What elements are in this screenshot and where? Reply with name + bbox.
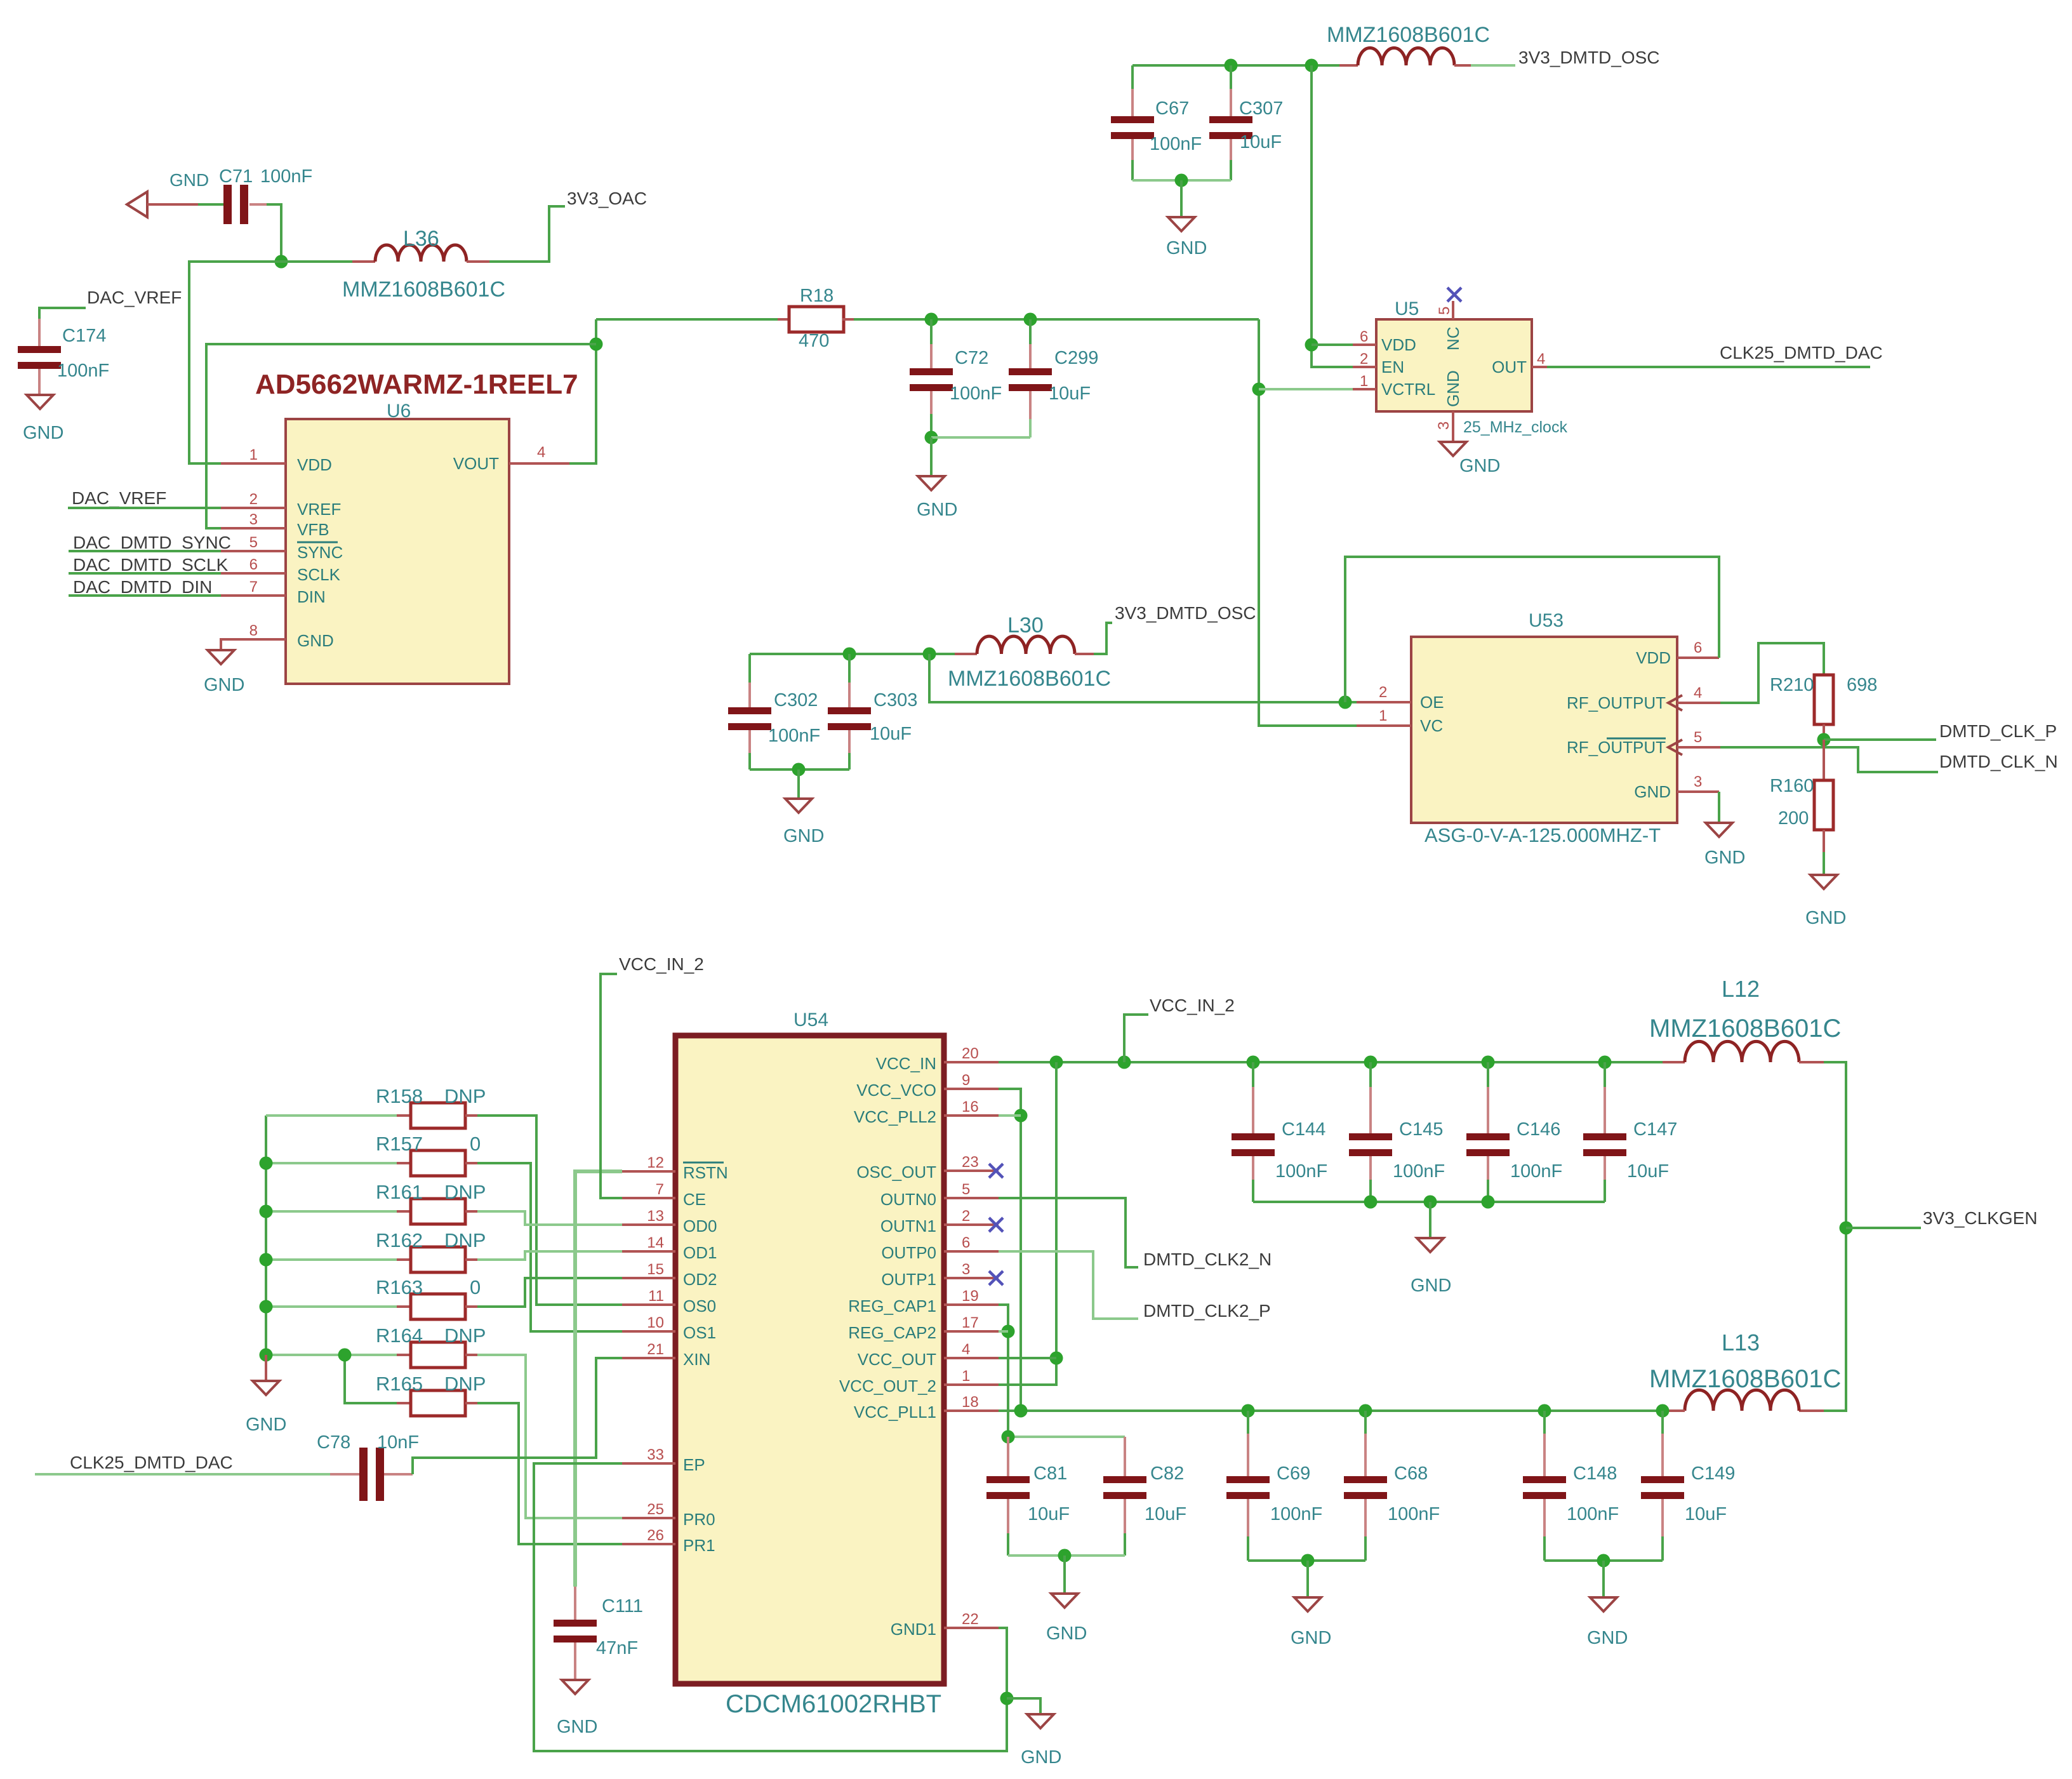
resistor R162 DNP: [266, 1258, 397, 1261]
U54 pin 17 REG_CAP2: [944, 1330, 999, 1333]
svg-text:REG_CAP1: REG_CAP1: [848, 1296, 936, 1316]
wire to 3V3_CLKGEN label: [1846, 1227, 1921, 1229]
svg-text:R162: R162: [376, 1229, 423, 1251]
svg-text:GND: GND: [297, 631, 334, 650]
svg-text:C303: C303: [873, 690, 917, 710]
svg-text:GND: GND: [1291, 1628, 1331, 1648]
wire to ground: [1429, 1202, 1431, 1238]
inductor L36 MMZ1608B601C: [352, 260, 375, 263]
svg-text:VOUT: VOUT: [453, 454, 499, 473]
svg-text:C82: C82: [1150, 1463, 1184, 1484]
svg-text:10uF: 10uF: [1240, 132, 1282, 152]
svg-text:GND: GND: [1046, 1623, 1087, 1644]
svg-text:2: 2: [962, 1208, 970, 1225]
U53 pin 2 OE: [1357, 701, 1411, 703]
svg-text:L12: L12: [1722, 976, 1760, 1002]
svg-text:4: 4: [1694, 684, 1702, 702]
svg-text:100nF: 100nF: [1270, 1504, 1322, 1524]
svg-text:4: 4: [1537, 350, 1545, 368]
junction: [260, 1349, 273, 1362]
svg-text:L36: L36: [403, 227, 439, 251]
U54 pin 2 OUTN1: [944, 1223, 999, 1226]
wire L36 to 3V3_OAC: [489, 206, 565, 262]
svg-text:DMTD_CLK2_P: DMTD_CLK2_P: [1143, 1301, 1271, 1321]
ground: [1168, 217, 1195, 231]
svg-text:C111: C111: [602, 1596, 643, 1616]
U54 pin 13 OD0: [622, 1223, 675, 1226]
junction: [1538, 1404, 1551, 1418]
U6 pin 7 DIN: [221, 594, 286, 597]
svg-text:3: 3: [249, 511, 258, 528]
wire R18 to caps and U5: [854, 318, 1259, 321]
svg-text:4: 4: [537, 444, 545, 461]
svg-text:OS0: OS0: [683, 1296, 716, 1316]
svg-text:0: 0: [470, 1276, 481, 1298]
svg-text:C78: C78: [317, 1432, 350, 1453]
wire RF_OUTPUT 5 to DMTD_CLK_N: [1720, 747, 1938, 772]
U53 pin 6 VDD: [1677, 656, 1719, 659]
svg-text:DAC_DMTD_SYNC: DAC_DMTD_SYNC: [73, 533, 231, 552]
svg-text:OSC_OUT: OSC_OUT: [856, 1163, 936, 1182]
capacitor C146 100nF: [1487, 1062, 1489, 1087]
capacitor C111 47nF: [574, 1587, 576, 1620]
svg-text:3V3_CLKGEN: 3V3_CLKGEN: [1923, 1208, 2038, 1228]
wire to U53 OE: [929, 654, 1357, 702]
svg-text:2: 2: [249, 491, 258, 508]
U6 pin 1 VDD: [221, 462, 286, 465]
svg-text:DNP: DNP: [444, 1085, 486, 1107]
capacitor C303 10uF: [848, 654, 851, 683]
svg-text:R163: R163: [376, 1276, 423, 1298]
resistor R164 DNP: [266, 1354, 397, 1356]
svg-text:GND: GND: [1704, 848, 1745, 868]
junction: [1225, 59, 1238, 72]
U53 pin 3 GND: [1677, 790, 1719, 793]
svg-text:GND: GND: [917, 500, 957, 520]
svg-text:VDD: VDD: [297, 455, 332, 474]
wire to ground: [1306, 1561, 1309, 1597]
svg-text:10nF: 10nF: [377, 1432, 419, 1453]
svg-text:VCC_PLL2: VCC_PLL2: [854, 1107, 936, 1126]
wire to ground: [1602, 1561, 1605, 1597]
junction: [260, 1205, 273, 1218]
svg-text:C67: C67: [1155, 98, 1189, 119]
wire to ground: [1063, 1556, 1066, 1594]
svg-text:VCTRL: VCTRL: [1381, 380, 1435, 399]
junction: [925, 313, 938, 326]
svg-text:DMTD_CLK2_N: DMTD_CLK2_N: [1143, 1249, 1272, 1269]
svg-text:DIN: DIN: [297, 587, 326, 606]
svg-text:26: 26: [647, 1527, 664, 1544]
svg-text:R18: R18: [800, 286, 833, 306]
svg-text:GND: GND: [204, 675, 244, 695]
svg-text:VCC_IN_2: VCC_IN_2: [1150, 996, 1235, 1015]
svg-text:100nF: 100nF: [57, 361, 109, 381]
wire OUTP0 to DMTD_CLK2_P: [999, 1251, 1138, 1319]
junction: [1482, 1196, 1495, 1209]
svg-text:100nF: 100nF: [260, 166, 312, 187]
svg-text:GND1: GND1: [891, 1620, 936, 1639]
svg-text:10uF: 10uF: [1049, 383, 1091, 404]
svg-text:VCC_OUT_2: VCC_OUT_2: [839, 1376, 936, 1396]
svg-text:U53: U53: [1529, 610, 1564, 631]
svg-text:OD1: OD1: [683, 1243, 717, 1262]
svg-text:8: 8: [249, 622, 258, 639]
svg-text:17: 17: [962, 1314, 979, 1331]
wire ferrite to 3V3_DMTD_OSC: [1471, 64, 1515, 67]
svg-text:698: 698: [1847, 675, 1877, 695]
svg-text:XIN: XIN: [683, 1350, 710, 1369]
U54 pin 6 OUTP0: [944, 1250, 999, 1253]
svg-text:R164: R164: [376, 1324, 423, 1347]
svg-text:3V3_DMTD_OSC: 3V3_DMTD_OSC: [1115, 603, 1256, 623]
svg-text:2: 2: [1379, 684, 1387, 701]
svg-text:C307: C307: [1239, 98, 1283, 119]
U54 pin 9 VCC_VCO: [944, 1088, 999, 1090]
svg-text:10uF: 10uF: [1627, 1161, 1669, 1182]
svg-text:10: 10: [647, 1314, 664, 1331]
svg-text:DNP: DNP: [444, 1181, 486, 1203]
svg-text:33: 33: [647, 1446, 664, 1463]
no-connect X: [989, 1271, 1003, 1285]
capacitor C307 10uF: [1230, 65, 1232, 89]
inductor L12 MMZ1608B601C: [1663, 1061, 1685, 1063]
wire EP to GND1 loop: [534, 1463, 1007, 1751]
svg-text:CLK25_DMTD_DAC: CLK25_DMTD_DAC: [1720, 343, 1883, 363]
svg-text:10uF: 10uF: [1028, 1504, 1070, 1524]
svg-text:GND: GND: [169, 170, 209, 190]
svg-text:5: 5: [1436, 307, 1453, 315]
svg-text:1: 1: [249, 446, 258, 463]
junction: [1002, 1325, 1015, 1338]
svg-text:MMZ1608B601C: MMZ1608B601C: [1327, 23, 1490, 47]
svg-text:100nF: 100nF: [1275, 1161, 1327, 1182]
svg-text:OUTP0: OUTP0: [881, 1243, 936, 1262]
U54 pin 4 VCC_OUT: [944, 1357, 999, 1359]
svg-text:EN: EN: [1381, 357, 1404, 376]
svg-text:GND: GND: [1805, 908, 1846, 928]
junction: [275, 255, 288, 269]
wire bus to ground: [265, 1355, 267, 1381]
wire R165 to PR1: [477, 1403, 622, 1544]
svg-text:16: 16: [962, 1098, 979, 1116]
svg-text:GND: GND: [1587, 1628, 1628, 1648]
svg-text:GND: GND: [1444, 370, 1463, 407]
svg-text:3: 3: [1694, 773, 1702, 790]
svg-text:5: 5: [962, 1181, 970, 1198]
svg-text:R158: R158: [376, 1085, 423, 1107]
svg-text:DNP: DNP: [444, 1324, 486, 1347]
svg-text:6: 6: [1694, 639, 1702, 656]
ground: [208, 650, 234, 664]
svg-text:R160: R160: [1770, 776, 1814, 796]
junction: [1364, 1196, 1378, 1209]
no-connect X: [989, 1218, 1003, 1232]
junction: [923, 648, 936, 661]
svg-text:100nF: 100nF: [1510, 1161, 1562, 1182]
junction: [1364, 1056, 1378, 1069]
no-connect X: [989, 1164, 1003, 1178]
ground: [1440, 442, 1466, 456]
wire to pin 7: [69, 594, 221, 597]
ground: [1417, 1238, 1444, 1252]
svg-text:DNP: DNP: [444, 1373, 486, 1395]
wire C69 C68 bottoms: [1248, 1559, 1365, 1562]
capacitor C145 100nF: [1369, 1062, 1372, 1087]
junction: [1305, 338, 1318, 352]
svg-text:25_MHz_clock: 25_MHz_clock: [1463, 418, 1567, 436]
svg-text:OS1: OS1: [683, 1323, 716, 1342]
svg-text:25: 25: [647, 1501, 664, 1518]
svg-text:C302: C302: [774, 690, 818, 710]
svg-text:RSTN: RSTN: [683, 1163, 728, 1182]
junction: [1424, 1196, 1437, 1209]
ground: [1294, 1597, 1321, 1611]
svg-text:VDD: VDD: [1381, 335, 1416, 354]
svg-text:0: 0: [470, 1133, 481, 1155]
U54 pin 23 OSC_OUT: [944, 1169, 999, 1172]
wire C148 C149 bottoms: [1544, 1559, 1663, 1562]
svg-text:3V3_OAC: 3V3_OAC: [567, 189, 647, 208]
svg-text:20: 20: [962, 1045, 979, 1062]
svg-text:10uF: 10uF: [1145, 1504, 1186, 1524]
junction: [1058, 1549, 1072, 1562]
wire C81 C82 top rail: [1008, 1436, 1125, 1438]
U5 pin 5 NC: [1452, 301, 1454, 319]
svg-text:C81: C81: [1033, 1463, 1067, 1484]
wire U6 GND pin to ground: [221, 639, 286, 650]
svg-text:C147: C147: [1633, 1119, 1677, 1140]
svg-text:7: 7: [656, 1181, 664, 1198]
junction: [1000, 1692, 1014, 1705]
junction: [1014, 1109, 1028, 1123]
svg-text:12: 12: [647, 1154, 664, 1171]
svg-text:6: 6: [1360, 328, 1368, 345]
resistor R210 698: [1814, 675, 1833, 724]
ground: [562, 1680, 588, 1694]
svg-text:VCC_VCO: VCC_VCO: [856, 1081, 936, 1100]
resistor R161 DNP: [266, 1210, 397, 1213]
ground: [1590, 1597, 1617, 1611]
U54 pin 15 OD2: [622, 1277, 675, 1279]
svg-text:RF_OUTPUT: RF_OUTPUT: [1567, 738, 1666, 757]
U54 pin 25 PR0: [622, 1517, 675, 1519]
svg-text:CLK25_DMTD_DAC: CLK25_DMTD_DAC: [70, 1453, 233, 1472]
svg-text:GND: GND: [1634, 782, 1671, 801]
U53 pin 5 RF_OUTPUT (inverted): [1677, 746, 1720, 749]
svg-text:C71: C71: [219, 166, 253, 187]
svg-text:CE: CE: [683, 1190, 706, 1209]
svg-text:19: 19: [962, 1288, 979, 1305]
U54 pin 1 VCC_OUT_2: [944, 1383, 999, 1386]
svg-text:VREF: VREF: [297, 500, 341, 519]
svg-text:2: 2: [1360, 350, 1368, 368]
wire DAC_VREF to pin 2: [68, 507, 221, 509]
wire R164 to PR0: [477, 1355, 622, 1518]
svg-text:VCC_IN_2: VCC_IN_2: [619, 954, 704, 974]
wire C78 to XIN: [413, 1358, 622, 1474]
svg-text:PR0: PR0: [683, 1510, 715, 1529]
svg-text:VCC_IN: VCC_IN: [876, 1054, 936, 1073]
U6 pin 6 SCLK: [221, 572, 286, 575]
U54 pin 22 GND1: [944, 1627, 999, 1629]
junction: [1817, 733, 1831, 747]
ground: [253, 1381, 279, 1395]
wire L12 to 3V3_CLKGEN node: [1824, 1062, 1846, 1411]
capacitor C68 100nF: [1364, 1411, 1367, 1434]
U54 pin 7 CE: [622, 1197, 675, 1199]
junction: [260, 1253, 273, 1267]
wire to ground: [797, 770, 800, 799]
wire VOUT to R18 node: [569, 319, 596, 463]
wire to ground: [1180, 180, 1183, 217]
U54 pin 5 OUTN0: [944, 1197, 999, 1199]
U5 pin 6 VDD: [1353, 343, 1376, 346]
wire R163 to OD2: [477, 1278, 622, 1307]
svg-text:9: 9: [962, 1072, 970, 1089]
svg-text:10uF: 10uF: [870, 724, 912, 744]
inductor L13 MMZ1608B601C: [1799, 1409, 1824, 1412]
wire C81 C82 bottoms: [1008, 1554, 1125, 1557]
svg-text:C72: C72: [955, 348, 988, 368]
svg-text:VCC_OUT: VCC_OUT: [858, 1350, 936, 1369]
IC U6 AD5662WARMZ-1REEL7: [286, 419, 509, 684]
svg-text:DAC_VREF: DAC_VREF: [87, 288, 182, 307]
junction: [1002, 1430, 1015, 1444]
svg-text:470: 470: [799, 331, 829, 351]
svg-text:DMTD_CLK_P: DMTD_CLK_P: [1939, 721, 2057, 741]
svg-text:L30: L30: [1007, 613, 1044, 637]
capacitor C149 10uF: [1661, 1411, 1664, 1434]
U54 pin 10 OS1: [622, 1330, 675, 1333]
U5 pin 3 GND: [1452, 411, 1454, 442]
wire OUTN0 to DMTD_CLK2_N: [999, 1198, 1138, 1267]
svg-text:C174: C174: [62, 326, 106, 346]
wire to ground below C72: [930, 437, 933, 476]
svg-text:100nF: 100nF: [768, 726, 820, 746]
svg-text:18: 18: [962, 1394, 979, 1411]
svg-text:22: 22: [962, 1611, 979, 1628]
junction: [1598, 1056, 1612, 1069]
svg-text:OUTN0: OUTN0: [880, 1190, 936, 1209]
svg-text:6: 6: [962, 1234, 970, 1251]
svg-text:SCLK: SCLK: [297, 565, 341, 584]
wire rail down to U5: [1312, 65, 1353, 367]
resistor R163 0: [266, 1305, 397, 1308]
resistor R157 0: [266, 1162, 397, 1164]
junction: [925, 431, 938, 444]
inductor MMZ1608B601C (top ferrite): [1339, 64, 1358, 67]
svg-text:REG_CAP2: REG_CAP2: [848, 1323, 936, 1342]
svg-text:MMZ1608B601C: MMZ1608B601C: [948, 667, 1111, 691]
wire to ground tap: [1007, 1698, 1040, 1714]
U5 pin 1 VCTRL: [1353, 388, 1376, 390]
resistor R18 470: [778, 318, 789, 321]
junction: [338, 1349, 352, 1362]
no-connect X: [1447, 288, 1461, 302]
junction: [1339, 696, 1352, 709]
capacitor C81 10uF: [1007, 1437, 1009, 1476]
ground: [785, 799, 812, 813]
junction: [1247, 1056, 1260, 1069]
wire RF_OUTPUT 4 to R210: [1720, 643, 1824, 703]
wire VCC_OUT / VCC_OUT_2 feed: [999, 1062, 1056, 1385]
wire cap bottoms rail: [1132, 179, 1231, 182]
U54 pin 3 OUTP1: [944, 1277, 999, 1279]
svg-text:NC: NC: [1444, 326, 1463, 350]
svg-text:14: 14: [647, 1234, 664, 1251]
inductor L30 MMZ1608B601C: [955, 653, 977, 655]
U54 pin 12 RSTN: [622, 1170, 675, 1173]
svg-text:C149: C149: [1691, 1463, 1735, 1484]
wire GND pin to ground: [1718, 792, 1720, 823]
svg-text:MMZ1608B601C: MMZ1608B601C: [342, 277, 505, 302]
svg-text:OUT: OUT: [1492, 357, 1527, 376]
svg-text:C299: C299: [1054, 348, 1098, 368]
wire R18 input: [595, 318, 597, 321]
svg-text:C69: C69: [1277, 1463, 1310, 1484]
U6 pin 2 VREF: [221, 507, 286, 509]
svg-text:C68: C68: [1394, 1463, 1428, 1484]
svg-text:5: 5: [249, 534, 258, 551]
svg-text:15: 15: [647, 1261, 664, 1278]
svg-text:GND: GND: [246, 1415, 286, 1435]
svg-text:47nF: 47nF: [596, 1638, 638, 1658]
svg-text:10uF: 10uF: [1685, 1504, 1727, 1524]
svg-text:MMZ1608B601C: MMZ1608B601C: [1649, 1365, 1841, 1393]
ground: [1706, 823, 1732, 837]
U5 pin 2 EN: [1353, 366, 1376, 368]
svg-text:DAC_DMTD_SCLK: DAC_DMTD_SCLK: [73, 555, 229, 575]
svg-text:7: 7: [249, 578, 258, 596]
svg-text:DAC_DMTD_DIN: DAC_DMTD_DIN: [73, 577, 212, 597]
ground: [1027, 1714, 1054, 1728]
U54 pin 20 VCC_IN: [944, 1061, 999, 1063]
junction: [1252, 383, 1266, 396]
ground: [918, 476, 945, 490]
svg-text:GND: GND: [1411, 1276, 1451, 1296]
wire R161 to OD0: [477, 1211, 622, 1225]
junction: [260, 1300, 273, 1314]
wire VFB feedback rail: [206, 344, 596, 528]
junction: [1014, 1404, 1028, 1418]
svg-text:OD0: OD0: [683, 1216, 717, 1236]
svg-text:VDD: VDD: [1636, 648, 1671, 667]
wire RSTN to C111: [575, 1171, 622, 1587]
U6 pin 5 SYNC: [221, 550, 286, 552]
capacitor C69 100nF: [1247, 1411, 1249, 1434]
svg-text:PR1: PR1: [683, 1536, 715, 1555]
wire C71 to junction: [249, 203, 267, 206]
wire CE to VCC_IN_2: [601, 974, 622, 1198]
capacitor C147 10uF: [1604, 1062, 1606, 1087]
U53 pin 1 VC: [1357, 724, 1411, 727]
svg-text:21: 21: [647, 1341, 664, 1358]
IC U53 ASG-0-V-A-125.000MHZ-T: [1411, 637, 1677, 823]
svg-text:OUTN1: OUTN1: [880, 1216, 936, 1236]
junction: [1359, 1404, 1372, 1418]
U54 pin 18 VCC_PLL1: [944, 1409, 999, 1412]
svg-text:R210: R210: [1770, 675, 1814, 695]
capacitor C144 100nF: [1252, 1062, 1254, 1087]
svg-text:11: 11: [648, 1288, 664, 1305]
junction: [1242, 1404, 1255, 1418]
capacitor C82 10uF: [1124, 1437, 1126, 1476]
junction: [1840, 1222, 1853, 1235]
svg-text:100nF: 100nF: [1150, 134, 1202, 154]
capacitor C67 100nF: [1131, 65, 1134, 89]
junction: [843, 648, 856, 661]
